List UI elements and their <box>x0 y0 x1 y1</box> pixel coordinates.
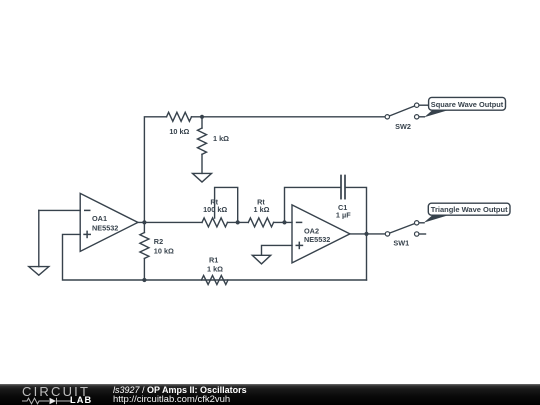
svg-text:100 kΩ: 100 kΩ <box>203 205 227 214</box>
svg-text:SW1: SW1 <box>393 239 409 248</box>
svg-text:1 kΩ: 1 kΩ <box>213 134 229 143</box>
svg-text:10 kΩ: 10 kΩ <box>154 246 174 255</box>
svg-text:R1: R1 <box>209 255 218 264</box>
svg-text:Square Wave Output: Square Wave Output <box>431 100 504 109</box>
svg-text:1 kΩ: 1 kΩ <box>254 205 270 214</box>
svg-text:NE5532: NE5532 <box>304 235 330 244</box>
svg-text:1 kΩ: 1 kΩ <box>207 264 223 273</box>
svg-text:NE5532: NE5532 <box>92 223 118 232</box>
svg-text:10 kΩ: 10 kΩ <box>169 127 189 136</box>
svg-text:Triangle Wave Output: Triangle Wave Output <box>431 205 508 214</box>
svg-text:OA1: OA1 <box>92 214 107 223</box>
svg-text:R2: R2 <box>154 237 163 246</box>
svg-text:SW2: SW2 <box>395 122 411 131</box>
svg-text:OA2: OA2 <box>304 226 319 235</box>
svg-text:1 µF: 1 µF <box>336 211 351 220</box>
